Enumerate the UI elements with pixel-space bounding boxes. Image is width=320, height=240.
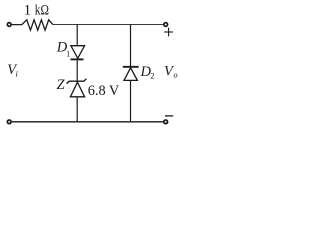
- wire between D1 and zener: [76, 60, 78, 82]
- zener Z bent cathode bar: [67, 79, 87, 84]
- terminal bottom-left: [7, 120, 11, 124]
- wire bottom rail: [12, 121, 163, 123]
- plus sign top right: [164, 28, 173, 37]
- svg-text:Z: Z: [57, 77, 66, 93]
- svg-text:6.8 V: 6.8 V: [88, 83, 120, 99]
- wire middle branch upper: [76, 25, 78, 46]
- svg-text:i: i: [16, 68, 19, 78]
- diode D1 triangle: [71, 46, 85, 59]
- wire right branch upper: [130, 25, 132, 67]
- wire zener to bottom rail: [76, 98, 78, 122]
- terminal top-right: [164, 23, 168, 27]
- resistor R 1kOhm zigzag: [12, 20, 53, 30]
- diode D2 cathode bar: [123, 66, 139, 68]
- svg-text:1: 1: [24, 2, 32, 18]
- svg-text:1: 1: [66, 48, 70, 58]
- minus sign bottom right: [165, 115, 173, 117]
- svg-text:2: 2: [150, 70, 154, 80]
- terminal bottom-right: [164, 120, 168, 124]
- zener Z triangle: [70, 82, 84, 97]
- svg-text:kΩ: kΩ: [35, 2, 49, 18]
- wire top rail: [53, 24, 163, 26]
- terminal top-left: [7, 23, 11, 27]
- wire D2 to bottom rail: [130, 81, 132, 122]
- svg-text:o: o: [173, 70, 177, 80]
- diode D1 cathode bar: [71, 58, 84, 60]
- diode D2 triangle: [124, 68, 137, 81]
